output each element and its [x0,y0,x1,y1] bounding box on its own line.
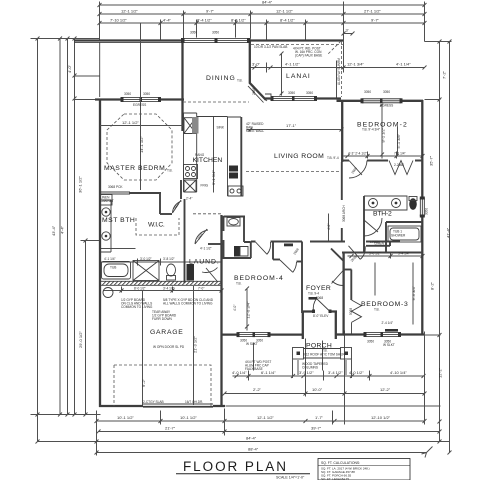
door bedroom-4 swing [256,242,271,254]
door laundry top leaf [195,229,208,244]
svg-text:12'-2": 12'-2" [380,387,391,392]
bth2 tub shower [388,226,421,242]
window bedroom-2 3050 pair [361,98,403,103]
dim lanai top tick [342,32,355,36]
svg-text:W OPN DOOR SL PD: W OPN DOOR SL PD [153,345,185,349]
svg-text:4'-1 1/2": 4'-1 1/2" [200,247,212,251]
detail circle A garage [103,288,113,298]
wall garage bottom [99,405,225,407]
svg-text:FAUX BASE: FAUX BASE [245,367,263,371]
svg-text:12'-0 3/4": 12'-0 3/4" [246,301,251,318]
svg-text:14'-1 1/2": 14'-1 1/2" [139,136,144,153]
svg-text:8'-1 1/2": 8'-1 1/2" [381,127,386,142]
dim bottom arrowhead row4 [422,447,433,458]
wall bedroom-2 bottom [342,160,423,162]
wall closet bedroom-4 front [273,259,280,261]
svg-text:27'-1 1/2": 27'-1 1/2" [364,9,381,14]
dim bedroom3 row [348,253,425,259]
svg-text:CABINET: CABINET [100,199,114,203]
door foyer front swing [313,299,330,312]
svg-text:2-CTGY SLAB: 2-CTGY SLAB [143,400,164,404]
svg-text:4'-0": 4'-0" [327,224,331,230]
svg-text:2668: 2668 [293,247,300,255]
window underlay [365,332,400,338]
svg-text:3'-4 1/2": 3'-4 1/2" [163,287,175,291]
door bth-2 swing [364,218,382,236]
svg-text:2'-4 1/4": 2'-4 1/4" [382,321,394,325]
dim bed4 foyer verticals [254,214,329,371]
window living 3050 pair [271,96,318,101]
svg-text:21'-3 1/2": 21'-3 1/2" [193,336,198,353]
svg-text:9'-1 3/4": 9'-1 3/4" [211,170,216,185]
bth2 toilet [409,198,417,210]
svg-text:MASTER BEDRM: MASTER BEDRM [104,165,166,172]
dim right stub bed3 [425,334,441,336]
wic shelf dashed [136,218,179,235]
svg-text:SHOWER: SHOWER [391,234,406,238]
svg-text:4'-1 1/4": 4'-1 1/4" [104,257,116,261]
dim bedroom4 interior vertical [245,287,249,331]
svg-text:29'-0 1/2": 29'-0 1/2" [78,331,83,348]
dim top row2 [100,13,425,15]
wall front bedroom-4 [221,333,303,335]
mst bath vanity [100,200,111,252]
wire top wall inner line [74,42,181,44]
svg-text:10'-1 1/2": 10'-1 1/2" [117,415,134,420]
svg-text:3050: 3050 [306,91,313,95]
porch slab lines [304,349,341,359]
svg-text:4'-1 1/4": 4'-1 1/4" [396,62,411,67]
window dining 3050 pair [181,38,251,43]
dim right stub top [425,41,452,43]
svg-text:3': 3' [346,28,349,33]
svg-text:3050: 3050 [124,92,131,96]
lanai slab dashed edge [251,44,344,46]
svg-text:3'-8 1/2": 3'-8 1/2" [163,257,175,261]
wall bth2 vanity back [363,196,365,252]
svg-text:KNEE WALL: KNEE WALL [246,129,264,133]
dim bedroom2 row [344,152,425,159]
svg-text:6'-1 1/4": 6'-1 1/4" [261,370,276,375]
window bth-2 right wall [420,197,425,218]
svg-text:3'-0": 3'-0" [252,62,261,67]
window underlay [122,97,160,103]
svg-text:3'-0 1/2": 3'-0 1/2" [369,252,381,256]
garage dashed slab [114,365,211,406]
kitchen base cabinet [184,180,196,192]
door closet bedroom-4 leaf [280,260,297,272]
svg-text:T.B. 9-4: T.B. 9-4 [308,292,319,296]
svg-text:W.I.C.: W.I.C. [148,222,166,229]
svg-text:BEDROOM-4: BEDROOM-4 [234,275,284,282]
wc toilet [234,246,240,257]
dim right verticals [440,42,450,453]
mst bath tub [102,262,131,280]
dim lanai row [251,41,427,73]
svg-text:8'-4 1/2": 8'-4 1/2" [231,18,246,23]
laundry washer dryer dark [187,264,195,281]
svg-text:PORCH: PORCH [306,343,333,350]
svg-text:9'-7": 9'-7" [206,9,215,14]
dim garage top row [104,287,223,293]
svg-text:4'-3" 2'-4 1/2": 4'-3" 2'-4 1/2" [348,152,367,156]
dim lanai inner vertical [280,52,284,98]
dim bottom row3 y441 [38,441,450,443]
dim porch row y375 [233,371,426,381]
dim bottom row2 y431 [99,431,440,433]
svg-text:84'-4": 84'-4" [246,436,257,441]
svg-text:12'-1 3/4": 12'-1 3/4" [347,62,364,67]
svg-text:3068 PCK: 3068 PCK [108,185,123,189]
svg-text:TUB: TUB [110,266,116,270]
dim top ticks row3 [98,21,427,25]
dim right stub bed2 [425,99,441,101]
svg-text:10'-0": 10'-0" [312,387,323,392]
svg-text:T.B.: T.B. [236,282,242,286]
svg-text:SQ. FT. CALCULATIONS:: SQ. FT. CALCULATIONS: [321,461,360,465]
lanai right dashed edge [341,41,343,97]
svg-text:41'-4": 41'-4" [446,227,451,238]
kitchen island counter edge [228,117,244,196]
wall wc toilet step [244,242,251,258]
svg-text:(CAP) FAUX BASE: (CAP) FAUX BASE [295,54,322,58]
dim top row3 [100,22,425,24]
svg-text:7'-2": 7'-2" [442,70,447,79]
svg-text:17'-1": 17'-1" [286,123,297,128]
svg-text:9'-2": 9'-2" [141,378,146,387]
svg-text:FURR DOWN: FURR DOWN [152,317,173,321]
wall bedroom-2 left [341,100,343,162]
lanai corner dashed brace [328,41,341,54]
door bedroom-3 leaf [349,246,366,259]
wall bedroom-4 right / foyer left [301,242,303,314]
door wic leaf [173,200,182,213]
wall wc bottom [222,257,251,259]
dim living horiz [247,128,344,132]
dim top ticks row2 [98,12,427,16]
svg-text:W SLKT: W SLKT [383,343,395,347]
svg-text:3050: 3050 [425,208,429,215]
svg-text:8'-4 1/2": 8'-4 1/2" [280,18,295,23]
svg-text:2'-2": 2'-2" [253,387,262,392]
dim top ticks row1 [98,3,427,7]
dim master bottom row [101,248,136,250]
svg-text:7'-0": 7'-0" [198,287,204,291]
wall bedroom-2 top [337,100,424,102]
wall porch left [302,312,304,340]
svg-text:12'-1 1/2": 12'-1 1/2" [276,9,293,14]
kitchen bar knee wall [240,117,242,196]
wall bth-2 bottom [342,252,423,254]
wall right exterior [421,100,423,335]
wall bedroom-4 top [251,241,302,243]
svg-text:LIVING ROOM: LIVING ROOM [274,153,325,160]
window bedroom-3 3050 pair [364,332,402,337]
master tray ceiling octagon dashed [107,114,172,180]
slab edge line y405 [226,405,441,407]
wall chase bottom [335,333,344,335]
window underlay [184,38,248,44]
door bedroom-2 swing [349,161,367,179]
svg-text:LANAI: LANAI [286,73,311,80]
dim left horiz stubs [31,39,101,415]
hatch on garage wall [102,281,222,285]
svg-text:BTH-2: BTH-2 [373,211,393,218]
wall bedroom3 closet east [350,270,352,301]
svg-text:T.B. 9'-4: T.B. 9'-4 [327,156,339,160]
wall dining right [250,41,266,100]
window bedroom-4 3050 pair [237,332,271,337]
svg-text:84'-4": 84'-4" [262,0,273,5]
wall wc top [224,216,246,218]
bth2 sink2 [392,199,401,208]
svg-text:4'-0 1/2": 4'-0 1/2" [349,370,364,375]
svg-text:GARAGE: GARAGE [150,329,184,336]
svg-text:COLUMNS: COLUMNS [302,366,318,370]
svg-text:SCALE 1/4"=1'-0": SCALE 1/4"=1'-0" [276,476,305,480]
wall wc left [223,216,225,231]
dim bottom extension verticals [97,331,425,456]
bth2 vanity [364,196,407,210]
svg-text:88'-4": 88'-4" [248,447,259,452]
wall master bottom [129,192,161,194]
sqft table box [318,459,410,480]
fixtures [100,165,421,298]
svg-text:5068: 5068 [349,308,353,315]
title block [176,459,410,480]
svg-text:3'-9 1/2": 3'-9 1/2" [299,370,314,375]
dim right ticks [438,40,452,455]
wall linen closet [366,242,400,247]
svg-text:12'-1 1/2": 12'-1 1/2" [122,120,139,125]
svg-text:ALIGN W/ SUNRM: ALIGN W/ SUNRM [337,58,341,85]
svg-text:4'-10 1/4": 4'-10 1/4" [390,370,407,375]
wall top patio/dining/lanai [74,39,343,41]
svg-text:12'-10 1/2": 12'-10 1/2" [371,415,391,420]
wall wc right [243,217,245,242]
porch column left [293,348,304,360]
door foyer-hall leaf [332,270,344,286]
wall patio right / dining left [181,41,183,131]
linen cabinet box [101,195,113,206]
svg-text:EGRESS: EGRESS [380,104,393,108]
svg-text:21'-7": 21'-7" [165,426,176,431]
svg-text:12'-2": 12'-2" [438,367,443,378]
svg-text:10 DR 3-1/2 PAN SLAB: 10 DR 3-1/2 PAN SLAB [254,45,287,49]
svg-text:4'-0": 4'-0" [67,64,72,73]
lanai post corner [265,94,271,99]
kitchen fridge cabinet grey [192,117,199,134]
wall hall-wc stub [223,240,225,258]
svg-text:3'-4 1/2": 3'-4 1/2" [328,370,343,375]
svg-text:EGRESS: EGRESS [133,103,146,107]
svg-text:8'-4 1/2": 8'-4 1/2" [197,18,212,23]
svg-text:DINING: DINING [206,75,236,82]
wall garage top hatched [100,281,222,285]
dim bedroom3 inner vertical [375,263,413,325]
bth2 sink1 [369,199,378,208]
dim bottom row4 y452 [97,452,427,454]
window underlay [362,98,401,104]
window underlay [238,332,269,338]
wall bedroom-3 bottom [343,333,424,335]
svg-text:3050: 3050 [143,92,150,96]
island dark double sink [229,166,238,172]
svg-text:43'-4": 43'-4" [51,225,56,236]
dim top row1 84-4 [100,4,425,6]
svg-text:35'-7": 35'-7" [429,155,434,166]
svg-text:10'-1 1/2": 10'-1 1/2" [180,415,197,420]
mst bath toilet [167,264,176,276]
dim bottom row porch y393 [225,393,425,395]
bifold closet bedroom-2 [389,161,413,175]
svg-text:T.B. 9'-4 3/4": T.B. 9'-4 3/4" [362,128,380,132]
wall kitchen-hall stub [180,180,182,199]
wall hall closets bottom [310,241,345,243]
kitchen cooktop [184,165,198,179]
dim lanai right vertical [336,61,338,99]
svg-text:8'-2": 8'-2" [430,281,435,290]
dim bottom row1 y420 [97,420,425,422]
svg-text:W SLKT: W SLKT [246,342,258,346]
svg-text:3050: 3050 [288,91,295,95]
svg-text:3050: 3050 [364,90,371,94]
dim left bottom ticks [36,413,88,417]
wall closet bedroom-4 jamb [297,261,303,263]
svg-text:3050: 3050 [190,31,197,35]
window dining bay diagonal [248,85,267,103]
door jamb ticks [312,310,315,314]
svg-text:2-2668: 2-2668 [394,163,404,167]
dim left top ticks [36,37,88,243]
svg-text:FLOOR PLAN: FLOOR PLAN [183,459,290,474]
svg-text:9'-7": 9'-7" [371,18,380,23]
window underlay [419,198,425,216]
svg-text:3050: 3050 [367,340,374,344]
dim top extension verticals [100,2,425,42]
wall lanai bottom / living top window wall [265,97,341,99]
svg-text:LINEN: LINEN [370,240,380,244]
door laundry-garage leaf [202,268,218,282]
svg-text:BEDROOM-3: BEDROOM-3 [361,301,409,308]
svg-text:2668: 2668 [351,166,358,174]
door label 3068 dark [309,297,318,300]
mst bath shower [133,261,159,281]
kitchen counter edges [184,113,197,192]
svg-text:4'-1 1/2": 4'-1 1/2" [285,62,300,67]
porch dim extensions [293,360,352,379]
svg-text:SINK: SINK [217,126,225,130]
svg-text:FRIG: FRIG [201,184,209,188]
svg-text:3050: 3050 [212,31,219,35]
svg-text:9'-6 3/4": 9'-6 3/4" [411,285,416,300]
wall master bottom pocket door [100,192,130,194]
dashed dining/living boundary [183,101,249,103]
svg-text:39'-7": 39'-7" [311,426,322,431]
svg-text:3050: 3050 [383,90,390,94]
wall porch right / chase [335,312,337,340]
svg-text:KITCHEN: KITCHEN [193,157,224,164]
svg-text:8'-0 1/2": 8'-0 1/2" [134,287,146,291]
dim wic row y261 [101,259,223,266]
svg-text:7'-1 1/4": 7'-1 1/4" [394,152,406,156]
svg-text:RANG: RANG [195,153,205,157]
svg-text:4'-0": 4'-0" [233,305,237,311]
wall bth2 tub-linen [386,222,422,252]
title underline [176,473,310,475]
wall master top with window [95,98,184,100]
wall garage right [220,215,222,407]
svg-text:36'-1 1/2": 36'-1 1/2" [78,176,83,193]
wall laundry top stub [208,243,223,245]
svg-text:T.B.: T.B. [167,169,173,173]
window header egress bedroom3 [385,329,398,332]
wall wic-laundry divider [184,199,186,283]
svg-text:4'-4": 4'-4" [163,18,172,23]
wall foyer right upper [343,253,345,313]
svg-text:T.B.: T.B. [237,79,243,83]
svg-text:MST BTH: MST BTH [102,217,136,224]
kitchen pantry cabinet [184,118,196,134]
svg-text:9:12 ROOF AT/C TOM SHER: 9:12 ROOF AT/C TOM SHER [303,353,345,357]
wall left exterior [99,99,101,408]
garage door opening [143,404,213,406]
svg-text:2'-4": 2'-4" [186,197,192,201]
wall bedroom3 closet top [344,269,352,271]
interior walls [100,23,423,406]
svg-text:COMMON TO LIVING: COMMON TO LIVING [121,305,153,309]
svg-text:3'-0 1/2": 3'-0 1/2" [140,257,152,261]
svg-text:4'-4": 4'-4" [60,225,65,234]
svg-text:16/7 OH.DR.: 16/7 OH.DR. [185,400,203,404]
garage interior dim verticals [143,286,194,405]
wall bedroom-3 left [342,253,344,335]
dim bottom ticks [36,392,427,455]
svg-text:12'-1 1/2": 12'-1 1/2" [121,9,138,14]
wall closet bedroom-4 west [272,242,274,260]
master center dim vertical [140,23,142,190]
svg-text:T.B.: T.B. [374,308,380,312]
svg-text:3068 ARCH: 3068 ARCH [342,204,346,222]
dim garage ticks [120,289,224,293]
svg-text:8'-0" ELEV: 8'-0" ELEV [313,314,329,318]
kitchen counter top run [197,116,228,118]
wall living/bedroom2 x341 [341,162,343,241]
porch column right [341,348,352,360]
mst bath sink 1 [102,208,110,216]
svg-text:LAUND.: LAUND. [189,259,220,266]
dim kitchen vertical [213,117,215,193]
svg-text:3'-4 1/4": 3'-4 1/4" [398,252,410,256]
dim bedroom2 window vertical [380,103,384,159]
exterior walls [74,38,425,408]
master center dim horizontal [100,125,183,127]
wall wic corridor [160,213,172,215]
island dishwasher [228,186,243,196]
dashes ceiling break hall [193,213,222,215]
dashed living boundary [246,171,341,173]
svg-text:ALL WALLS COMMON TO LIVING: ALL WALLS COMMON TO LIVING [163,302,213,306]
dim left verticals [38,39,86,442]
dimension framework [31,2,452,458]
closet header bedroom-4 [284,244,293,247]
window underlay [272,96,316,102]
wall foyer front with door [302,310,337,312]
wall wic step vertical [159,193,161,214]
svg-text:5'-1 3/8": 5'-1 3/8" [396,133,401,148]
svg-text:3068: 3068 [316,296,323,300]
window master 3050 pair [121,97,162,102]
